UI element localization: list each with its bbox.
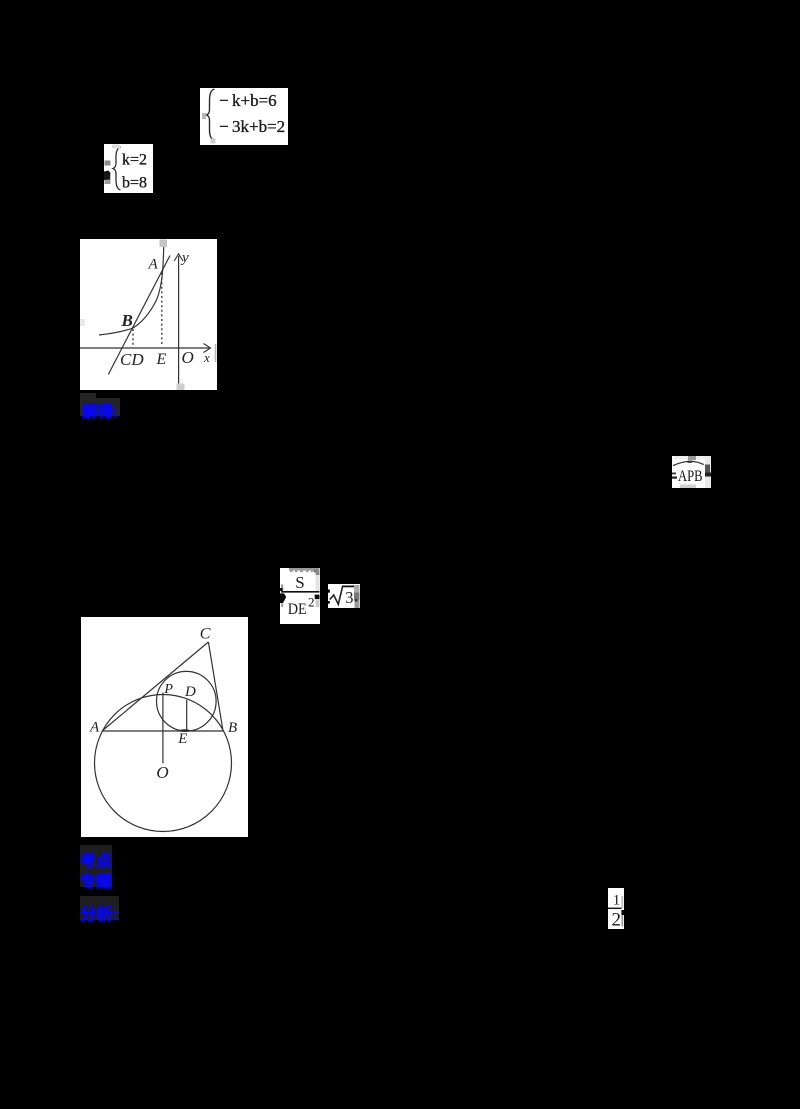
svg-text:2: 2 — [612, 909, 622, 929]
svg-text:B: B — [121, 311, 133, 330]
svg-text:DE: DE — [288, 601, 307, 618]
svg-text:E: E — [177, 731, 187, 747]
svg-text:3: 3 — [345, 588, 353, 607]
svg-text:B: B — [228, 720, 237, 736]
svg-text:x: x — [203, 350, 210, 365]
svg-text:APB: APB — [678, 468, 703, 485]
svg-text:CD: CD — [120, 350, 144, 369]
svg-text:− k+b=6: − k+b=6 — [219, 91, 277, 110]
svg-text:O: O — [182, 348, 194, 367]
svg-text:1: 1 — [613, 893, 621, 909]
svg-text:b=8: b=8 — [122, 175, 147, 192]
svg-text:A: A — [89, 720, 100, 736]
svg-text:y: y — [180, 250, 189, 266]
svg-text:C: C — [200, 626, 211, 643]
svg-text:− 3k+b=2: − 3k+b=2 — [219, 117, 285, 136]
svg-text:S: S — [295, 573, 304, 592]
svg-text:D: D — [184, 684, 196, 700]
svg-text:E: E — [156, 351, 167, 368]
svg-text:O: O — [156, 763, 168, 782]
svg-text:k=2: k=2 — [122, 152, 147, 169]
svg-text:P: P — [163, 682, 173, 697]
svg-text:A: A — [148, 257, 159, 273]
svg-text:2: 2 — [308, 595, 315, 610]
